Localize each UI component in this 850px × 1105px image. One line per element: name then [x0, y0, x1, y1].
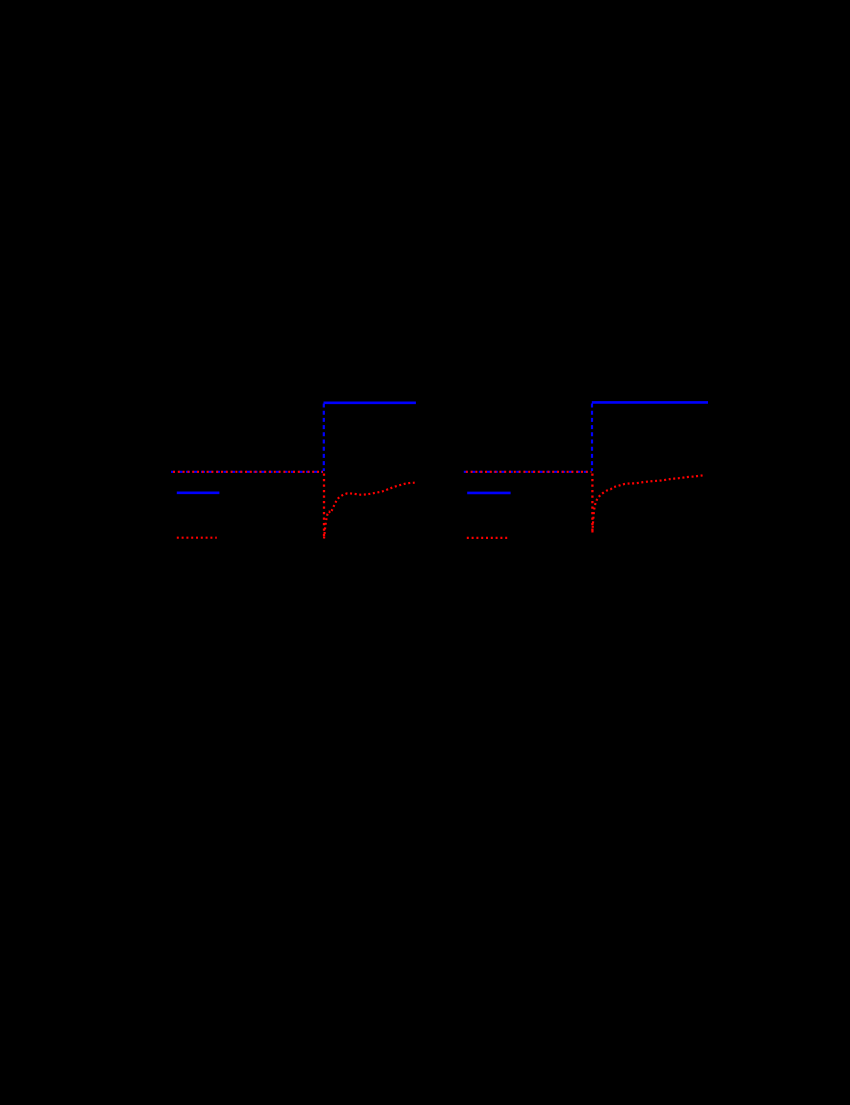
legend red dotted (right) — [467, 537, 509, 539]
blue dashed vertical step (right) — [591, 404, 593, 472]
red dotted recovery curve (right) — [592, 475, 704, 532]
blue solid post-step line (left) — [324, 401, 416, 404]
red dotted recovery curve (left) — [324, 483, 415, 539]
legend blue solid (right) — [467, 492, 510, 495]
legend blue solid (left) — [177, 491, 220, 494]
pre-step red dotted line (left) — [171, 471, 323, 473]
pre-step blue dashed line (left) — [171, 471, 323, 473]
legend red dotted (left) — [177, 537, 217, 539]
blue solid post-step line (right) — [592, 401, 708, 404]
red dotted drop at step (right) — [591, 474, 593, 534]
red dotted drop at step (left) — [323, 474, 325, 540]
blue dashed vertical step (left) — [323, 404, 325, 472]
pre-step blue dashed line (right) — [464, 471, 592, 473]
pre-step red dotted line (right) — [464, 471, 592, 473]
